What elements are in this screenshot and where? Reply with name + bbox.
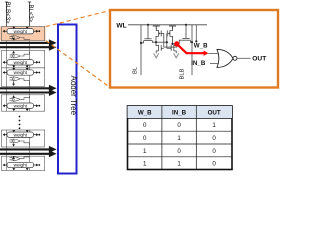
svg-text:W_B: W_B [194, 43, 208, 50]
weight register W1 [7, 29, 34, 34]
svg-text:1: 1 [143, 148, 147, 155]
svg-text:WL: WL [116, 22, 126, 29]
truth table header IN_B [172, 110, 187, 117]
net label BLB [180, 68, 186, 79]
weight W3 right port arrow [34, 71, 41, 74]
transistor M1 PMOS (left pull-up) [156, 29, 164, 42]
wire BL [140, 25, 142, 75]
bitcell 2 output arrow to adder bus [12, 51, 15, 54]
partial-sum bus arrows (pair 2) [0, 85, 57, 92]
XNOR gate of bitcell 3 [10, 77, 30, 85]
weight W6 right port arrow [34, 164, 41, 167]
svg-text:weight: weight [14, 163, 28, 168]
bitcell 4 output arrow to adder bus [12, 95, 15, 97]
bitcell 1 border [2, 27, 45, 41]
svg-text:0: 0 [212, 148, 216, 155]
bitcell 3 border [2, 68, 45, 87]
bitcell 2 border [2, 50, 45, 67]
wire node A rail [156, 41, 167, 43]
XNOR gate of bitcell 4 [10, 96, 30, 101]
bitcell 1 output arrow to adder bus [12, 38, 15, 40]
svg-text:OUT: OUT [208, 110, 221, 117]
svg-text:1: 1 [177, 135, 181, 142]
weight W4 left port arrow [3, 104, 7, 107]
weight W5 left port arrow [3, 133, 7, 136]
net label IN_B [191, 60, 206, 67]
weight W6 left port arrow [3, 164, 7, 167]
bitline taps into weight W3 [12, 68, 15, 70]
bitline BL<3> vertical wire [28, 2, 31, 27]
svg-text:BLB: BLB [180, 68, 186, 79]
svg-text:0: 0 [143, 122, 147, 129]
svg-text:BL: BL [133, 66, 139, 74]
svg-text:0: 0 [177, 122, 181, 129]
svg-text:1: 1 [143, 161, 147, 168]
NOR gate U1 [217, 49, 237, 67]
weight W4 right port arrow [34, 104, 41, 107]
bitcell 3 output arrow to adder bus [12, 81, 15, 86]
column continuation dots [19, 116, 21, 130]
XNOR gate of bitcell 5 [10, 139, 30, 146]
net label BL [133, 66, 139, 74]
bitcell 6 border [2, 156, 45, 170]
svg-text:IN_B: IN_B [172, 110, 187, 117]
transistor M3 NMOS (left pull-down) [156, 42, 164, 53]
bitcell 5 output arrow to adder bus [12, 144, 15, 147]
svg-text:0: 0 [143, 135, 147, 142]
XNOR gate of bitcell 1 [10, 36, 30, 40]
weight register W2 [7, 60, 34, 65]
cross-couple wire (left gates to node B) [164, 33, 177, 47]
partial-sum bus arrows (pair 1) [0, 39, 57, 46]
red wire W_B to NOR input [177, 44, 209, 56]
bitcell 4 border [2, 95, 45, 111]
net label W_B [194, 43, 208, 50]
weight register W4 [7, 103, 34, 108]
VDD bar (left pull-up) [153, 26, 160, 29]
truth table header W_B [138, 110, 152, 117]
access transistor M5 (BL side) [141, 25, 156, 43]
weight W3 left port arrow [3, 71, 7, 74]
bitline BLB<3> vertical wire [5, 2, 8, 27]
callout dashed line (bottom) [46, 41, 110, 87]
svg-text:0: 0 [212, 135, 216, 142]
ground symbol (left) [154, 53, 159, 58]
weight W2 left port arrow [3, 61, 7, 64]
truth table header OUT [208, 110, 221, 117]
junction M6 to BLB [191, 41, 193, 43]
weight W1 right port arrow [34, 30, 41, 33]
wire WL [128, 24, 207, 26]
svg-text:BLB<3>: BLB<3> [4, 2, 10, 24]
wire BLB [191, 25, 193, 75]
cross-couple wire (right gates to node A) [166, 33, 168, 48]
wire node B to M4 drain [171, 43, 176, 45]
svg-text:0: 0 [177, 148, 181, 155]
truth table data rows [143, 122, 216, 167]
svg-text:weight: weight [14, 60, 28, 65]
net label BL<3> [27, 5, 33, 23]
ground symbol (right) [174, 53, 179, 58]
bitline taps into weight W2 [12, 65, 15, 68]
truth table [128, 106, 233, 170]
node: WL to M5 gate [147, 24, 149, 26]
zoom-in detail box (orange) [110, 10, 278, 88]
partial-sum bus arrows (pair 3) [0, 146, 57, 153]
svg-text:weight: weight [14, 132, 28, 137]
bitline taps into weight W5 [12, 130, 15, 132]
transistor M2 PMOS (right pull-up) [167, 29, 173, 44]
weight register W6 [7, 162, 34, 167]
VDD bar (right pull-up) [169, 26, 176, 29]
svg-text:1: 1 [177, 161, 181, 168]
weight W5 right port arrow [34, 133, 41, 136]
bitline BLB column wire through cells [6, 27, 8, 171]
svg-text:Adder Tree: Adder Tree [69, 76, 78, 116]
svg-text:0: 0 [212, 161, 216, 168]
svg-text:IN_B: IN_B [191, 60, 206, 67]
junction node A / M1 drain [155, 41, 157, 43]
net label BLB<3> [4, 2, 10, 24]
weight register W3 [7, 70, 34, 75]
bitline taps into weight W1 [12, 27, 15, 29]
junction BL / access M5 [140, 42, 142, 44]
svg-text:W_B: W_B [138, 110, 152, 117]
bitcell 5 border [2, 130, 45, 147]
word line WL label [116, 22, 126, 29]
bitline taps into weight W6 [12, 168, 15, 171]
svg-text:weight: weight [14, 103, 28, 108]
weight W2 right port arrow [34, 61, 41, 64]
XNOR gate of bitcell 2 [10, 52, 30, 58]
bitcell 6 output arrow to adder bus [12, 156, 15, 159]
wire NOR output to OUT [237, 57, 251, 59]
svg-text:1: 1 [212, 122, 216, 129]
XNOR gate of bitcell 6 [10, 157, 30, 161]
wire from WL down to W_B region [195, 25, 197, 43]
adder tree label [69, 76, 78, 116]
node: WL to M6 gate [185, 24, 187, 26]
weight register W5 [7, 132, 34, 137]
bitcell 1 box [0, 27, 46, 41]
weight W1 left port arrow [3, 30, 7, 33]
svg-text:BL<3>: BL<3> [27, 5, 33, 23]
adder tree block [58, 25, 77, 174]
svg-text:weight: weight [14, 29, 28, 34]
wire W_B to NOR input [208, 53, 218, 55]
svg-text:weight: weight [14, 70, 28, 75]
bitline BL column wire through cells [29, 27, 31, 171]
access transistor M6 (BLB side) [177, 25, 192, 44]
svg-text:OUT: OUT [252, 55, 266, 62]
transistor M4 NMOS (right pull-down) [167, 44, 177, 54]
bitline taps into weight W4 [12, 108, 15, 111]
wire IN_B to NOR input [210, 62, 220, 64]
pin label OUT [252, 55, 266, 62]
callout dashed line (top) [46, 11, 110, 27]
node W_B (red dot on storage node) [174, 41, 179, 46]
